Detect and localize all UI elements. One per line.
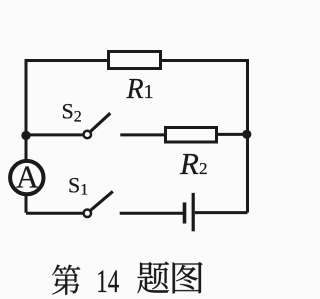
wire outer loop: left, top, right (26, 61, 248, 213)
node junction dot right (242, 130, 251, 139)
node junction dot left (21, 131, 30, 140)
resistor R2 (166, 128, 217, 143)
caption: 图 (173, 262, 203, 294)
caption: 第 (52, 265, 80, 295)
resistor R1 (109, 52, 161, 69)
wire middle branch right: R2 to junction (217, 133, 248, 136)
svg-text:A: A (16, 160, 39, 195)
wire bottom-left segment to S1 (26, 212, 83, 215)
switch S2 pivot (84, 131, 92, 139)
switch S1 pivot (84, 210, 92, 218)
battery cell long plate (192, 193, 195, 231)
battery cell short plate (183, 202, 187, 223)
caption: 题 (137, 261, 169, 293)
switch S2 lever (91, 113, 111, 131)
wire bottom-middle segment S1 to battery (120, 212, 183, 215)
wire bottom-right segment battery to corner (195, 211, 248, 214)
wire middle branch: S2 to R2 (120, 133, 165, 136)
wire middle branch left: junction to S2 (26, 133, 83, 136)
svg-text:14: 14 (96, 264, 119, 299)
ammeter A1 (10, 161, 43, 194)
switch S1 lever (91, 191, 113, 210)
